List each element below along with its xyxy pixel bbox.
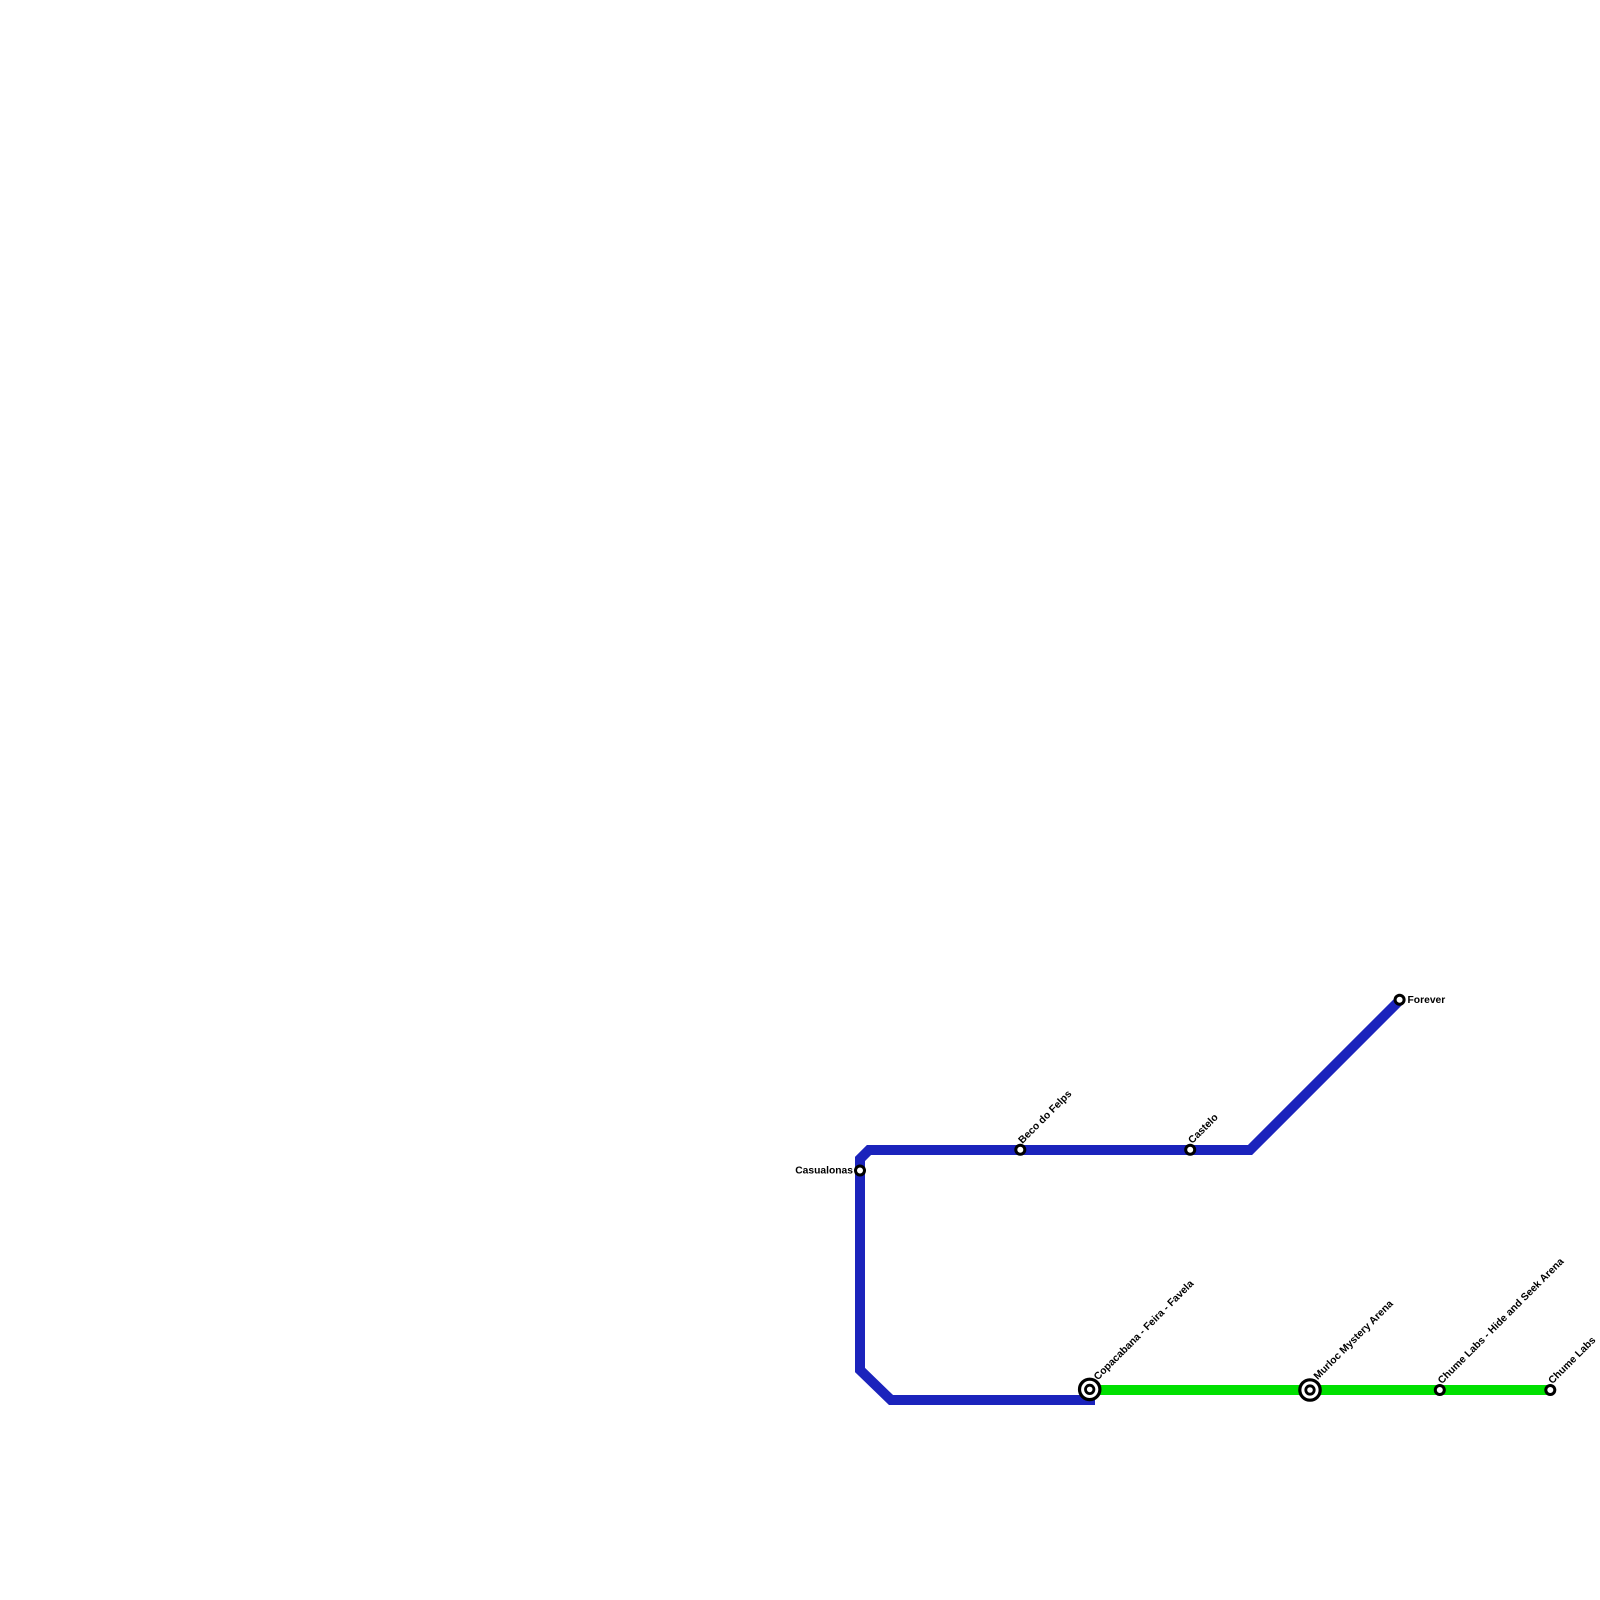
station Beco do Felps [1016, 1145, 1025, 1154]
interchange symbol Murloc Mystery Arena [1300, 1380, 1320, 1400]
station Castelo [1186, 1145, 1195, 1154]
station Chume Labs - Hide and Seek Arena [1435, 1386, 1444, 1395]
station Forever [1395, 995, 1404, 1004]
blue line (Forever - Castelo - Beco do Felps - Casualonas - Copacabana) [860, 1000, 1400, 1400]
station Casualonas [856, 1166, 865, 1175]
station Chume Labs (terminus) [1546, 1386, 1555, 1395]
interchange symbol Copacabana - Feira - Favela [1080, 1379, 1100, 1399]
svg-text:Forever: Forever [1408, 995, 1446, 1006]
green line (Copacabana - Murloc Mystery Arena - Chume Labs) [1090, 1385, 1550, 1395]
svg-text:Casualonas: Casualonas [795, 1166, 853, 1177]
